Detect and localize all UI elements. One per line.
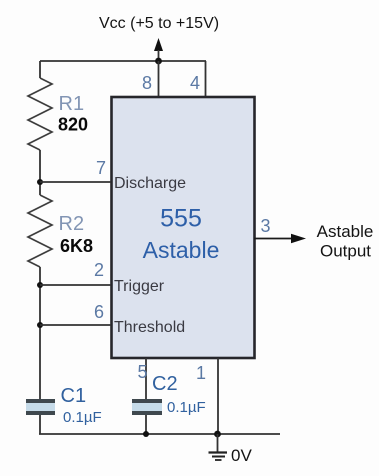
- wire C1 to ground rail: [39, 415, 41, 434]
- wire ground rail: [39, 433, 280, 435]
- wire pin 8: [158, 61, 160, 97]
- wire pin 7: [40, 181, 111, 183]
- svg-text:555: 555: [160, 205, 202, 233]
- wire pin 3: [254, 238, 292, 240]
- junction Vcc node: [155, 58, 162, 65]
- svg-text:Astable: Astable: [143, 237, 220, 263]
- svg-text:Threshold: Threshold: [114, 319, 185, 336]
- wire R2 to trigger node: [39, 267, 41, 399]
- junction threshold node: [37, 322, 43, 328]
- junction discharge node: [37, 179, 43, 185]
- capacitor C2: [132, 399, 162, 415]
- junction C2 ground node: [143, 431, 149, 437]
- svg-text:0V: 0V: [231, 446, 252, 465]
- svg-text:C2: C2: [152, 373, 178, 395]
- resistor R2: [28, 195, 52, 267]
- wire left rail top: [39, 61, 41, 78]
- wire ground stem: [217, 434, 219, 452]
- svg-text:Output: Output: [320, 242, 371, 261]
- svg-text:5: 5: [137, 362, 147, 382]
- wire top rail: [40, 60, 206, 62]
- svg-text:2: 2: [94, 260, 104, 280]
- Vcc supply arrow: [154, 38, 163, 62]
- svg-text:4: 4: [190, 73, 200, 93]
- wire pin 2: [40, 284, 111, 286]
- svg-text:C1: C1: [61, 385, 87, 407]
- svg-text:Discharge: Discharge: [114, 175, 186, 192]
- svg-text:R1: R1: [59, 93, 85, 115]
- svg-text:8: 8: [142, 73, 152, 93]
- pin 3 arrowhead: [291, 234, 306, 243]
- svg-text:820: 820: [58, 115, 88, 135]
- svg-text:R2: R2: [59, 213, 85, 235]
- svg-text:Astable: Astable: [317, 222, 374, 241]
- svg-text:7: 7: [96, 158, 106, 178]
- wire R1 to discharge node: [39, 150, 41, 195]
- svg-text:1: 1: [196, 363, 206, 383]
- wire pin 5: [145, 358, 147, 399]
- wire pin 6: [40, 324, 111, 326]
- op-amp U1 555 IC body: [112, 97, 255, 358]
- svg-text:6: 6: [94, 302, 104, 322]
- svg-text:Trigger: Trigger: [114, 278, 165, 295]
- wire pin 4: [205, 61, 207, 97]
- svg-text:Vcc (+5 to +15V): Vcc (+5 to +15V): [99, 15, 219, 32]
- junction trigger node: [37, 282, 43, 288]
- svg-text:0.1µF: 0.1µF: [63, 409, 102, 426]
- svg-text:6K8: 6K8: [60, 236, 93, 256]
- ground: [209, 453, 228, 461]
- wire C2 to ground rail: [145, 415, 147, 434]
- capacitor C1: [26, 399, 55, 415]
- svg-text:3: 3: [260, 216, 270, 236]
- junction ground node: [214, 431, 221, 438]
- wire pin 1: [217, 358, 219, 434]
- resistor R1: [28, 78, 52, 150]
- svg-text:0.1µF: 0.1µF: [167, 399, 206, 416]
